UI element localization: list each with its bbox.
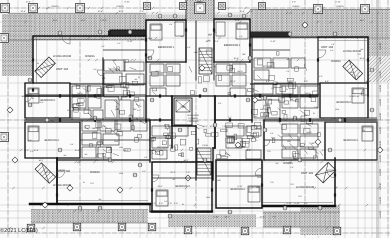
door jambs: [59, 94, 61, 97]
svg-text:O.CPPT: O.CPPT: [379, 140, 382, 148]
stipple texture right notch: [368, 38, 390, 62]
svg-text:LIVING ROOM: LIVING ROOM: [343, 50, 362, 53]
unit 102 outer walls (bottom-left): [56, 158, 58, 204]
svg-text:CL: CL: [138, 76, 140, 79]
grid tag squares bottom: [27, 224, 35, 232]
stipple texture left edge strip: [2, 14, 33, 76]
svg-text:3'-4": 3'-4": [142, 170, 146, 173]
diamond keynote markers: [302, 22, 308, 28]
svg-text:10'-6": 10'-6": [213, 40, 218, 43]
svg-text:9'-6": 9'-6": [325, 80, 329, 83]
svg-text:UNIT 101: UNIT 101: [301, 171, 314, 175]
svg-text:22'-8": 22'-8": [45, 171, 50, 174]
svg-text:PORCH: PORCH: [116, 5, 124, 8]
svg-text:DINING: DINING: [331, 60, 340, 63]
unit 101 bedroom bottom-right: [325, 122, 377, 160]
svg-text:3'-4": 3'-4": [144, 156, 148, 159]
svg-text:8'-1": 8'-1": [137, 109, 141, 112]
svg-text:7'-0": 7'-0": [168, 202, 172, 205]
svg-text:D1: D1: [313, 112, 315, 115]
central lobby walls: [171, 96, 173, 148]
svg-text:3'-4": 3'-4": [173, 136, 177, 139]
right mid bath cluster: [300, 86, 318, 95]
svg-text:2'-6": 2'-6": [331, 43, 335, 46]
svg-text:10'-6": 10'-6": [157, 185, 162, 188]
svg-text:2'-6": 2'-6": [101, 45, 105, 48]
circle window tags: [98, 30, 102, 34]
svg-text:BATH: BATH: [93, 127, 99, 130]
corridor double wall lines: [25, 94, 377, 121]
svg-text:TYP.: TYP.: [50, 120, 54, 123]
bedroom block bottom walls + walkway walls: [146, 61, 186, 63]
unit 102 stair: [35, 163, 56, 184]
svg-text:4'-0": 4'-0": [187, 46, 191, 49]
svg-text:3RD FLOOR: 3RD FLOOR: [187, 114, 199, 117]
center upper stair between bedrooms: [199, 48, 212, 74]
svg-text:O.CPPT: O.CPPT: [379, 168, 382, 176]
svg-text:5'-10": 5'-10": [270, 40, 275, 43]
center entries: [150, 88, 166, 96]
svg-text:22'-8": 22'-8": [230, 80, 235, 83]
svg-text:BEDROOM 1: BEDROOM 1: [44, 139, 60, 142]
svg-text:7'-0": 7'-0": [103, 19, 107, 22]
svg-text:10'-6": 10'-6": [52, 19, 57, 22]
svg-text:LIVING ROOM: LIVING ROOM: [53, 55, 72, 58]
svg-text:O.CPPT: O.CPPT: [379, 84, 382, 92]
svg-text:BEDROOM 1: BEDROOM 1: [224, 44, 241, 47]
right edge strong verticals: [376, 0, 378, 238]
svg-text:O.CPPT: O.CPPT: [379, 98, 382, 106]
svg-text:LIVING ROOM: LIVING ROOM: [296, 186, 315, 189]
svg-text:10'-6": 10'-6": [118, 10, 123, 13]
svg-text:5'-10": 5'-10": [340, 117, 345, 120]
svg-text:WALK: WALK: [197, 1, 203, 4]
svg-text:W2: W2: [64, 154, 67, 157]
svg-text:TYP.: TYP.: [290, 183, 294, 186]
svg-text:CL: CL: [83, 181, 85, 184]
svg-text:2'-6": 2'-6": [286, 70, 290, 73]
left mid bath cluster: [72, 86, 86, 95]
svg-text:3'-0": 3'-0": [25, 149, 29, 152]
svg-text:14'-2": 14'-2": [151, 149, 156, 152]
svg-text:BATH: BATH: [307, 131, 313, 134]
bottom-left bath cluster: [82, 120, 98, 131]
svg-text:CL: CL: [67, 109, 69, 112]
svg-text:O.CPPT: O.CPPT: [379, 70, 382, 78]
svg-text:PORCH: PORCH: [51, 5, 59, 8]
svg-text:O.CPPT: O.CPPT: [379, 154, 382, 162]
unit 102 kitchen cluster: [152, 126, 170, 136]
unit 101 outer walls (bottom-right): [263, 205, 335, 207]
svg-text:O.CPPT: O.CPPT: [379, 56, 382, 64]
right edge notes: [379, 42, 382, 218]
svg-text:3'-4": 3'-4": [134, 136, 138, 139]
unit 103 kitchen cluster: [254, 58, 271, 68]
svg-text:D1: D1: [182, 203, 184, 206]
left mid closets: [105, 100, 117, 118]
svg-text:12'-4": 12'-4": [259, 216, 264, 219]
svg-text:10'-6": 10'-6": [209, 125, 214, 128]
svg-text:5'-10": 5'-10": [127, 40, 132, 43]
svg-text:2'-6": 2'-6": [93, 68, 97, 71]
svg-text:12'-4": 12'-4": [234, 19, 239, 22]
svg-text:D1: D1: [37, 62, 39, 65]
svg-text:9'-6": 9'-6": [281, 159, 285, 162]
svg-text:W2: W2: [135, 78, 138, 81]
svg-text:TYP.: TYP.: [28, 139, 32, 142]
band mullion lines: [9, 14, 11, 40]
svg-text:W2: W2: [181, 35, 184, 38]
porch micro labels: [51, 1, 344, 9]
svg-text:3'-4": 3'-4": [330, 49, 334, 52]
party wall upper-right: [252, 95, 318, 97]
svg-text:5'-10": 5'-10": [213, 216, 218, 219]
stipple texture top-left band: [8, 14, 146, 40]
svg-text:W2: W2: [351, 71, 354, 74]
svg-text:W2: W2: [173, 178, 176, 181]
svg-text:14'-2": 14'-2": [38, 159, 43, 162]
svg-text:4'-0": 4'-0": [319, 75, 323, 78]
svg-text:3'-4": 3'-4": [362, 129, 366, 132]
svg-text:5'-10": 5'-10": [124, 1, 129, 4]
svg-text:3'-4": 3'-4": [169, 23, 173, 26]
svg-text:DINING: DINING: [283, 162, 292, 165]
svg-text:O.CPPT: O.CPPT: [379, 126, 382, 134]
unit 103 stair: [343, 60, 363, 80]
unit 104 outer walls (top-left): [33, 36, 146, 83]
svg-text:2'-6": 2'-6": [239, 35, 243, 38]
svg-text:BEDROOM 1: BEDROOM 1: [158, 46, 175, 49]
svg-text:CL: CL: [294, 157, 296, 160]
svg-text:DINING: DINING: [85, 55, 94, 58]
unit 104 bedroom 2: [25, 83, 70, 118]
svg-text:9'-6": 9'-6": [249, 10, 253, 13]
svg-text:TYP.: TYP.: [314, 106, 318, 109]
svg-text:D1: D1: [141, 38, 143, 41]
thin connecting strip across top: [146, 15, 250, 22]
svg-text:TYP.: TYP.: [298, 195, 302, 198]
svg-text:3'-0": 3'-0": [174, 202, 178, 205]
svg-text:7'-0": 7'-0": [152, 202, 156, 205]
svg-text:TYP.: TYP.: [90, 182, 94, 185]
dark porch wall bars: [108, 31, 146, 36]
svg-text:10'-6": 10'-6": [359, 57, 364, 60]
svg-text:5'-2": 5'-2": [117, 42, 121, 45]
svg-text:12'-4": 12'-4": [74, 149, 79, 152]
svg-text:7'-0": 7'-0": [146, 19, 150, 22]
party wall upper-left: [25, 95, 103, 97]
svg-text:3'-0": 3'-0": [159, 202, 163, 205]
svg-text:W2: W2: [266, 114, 269, 117]
svg-text:UNIT 104: UNIT 104: [56, 67, 69, 71]
svg-text:9'-6": 9'-6": [170, 95, 174, 98]
window mullion inner lines: [33, 36, 368, 203]
svg-text:14'-2": 14'-2": [224, 216, 229, 219]
svg-text:DINING: DINING: [90, 171, 99, 174]
svg-text:O.CPPT: O.CPPT: [379, 42, 382, 50]
svg-text:TYP.: TYP.: [357, 53, 361, 56]
svg-text:3'-4": 3'-4": [164, 200, 168, 203]
svg-text:5'-10": 5'-10": [354, 95, 359, 98]
svg-text:O.CPPT: O.CPPT: [379, 196, 382, 204]
svg-text:9'-6": 9'-6": [321, 117, 325, 120]
svg-text:3'-4": 3'-4": [70, 143, 74, 146]
svg-text:KITCHEN: KITCHEN: [157, 146, 167, 149]
svg-text:5'-10": 5'-10": [335, 1, 340, 4]
stipple texture top-center walkway: [186, 0, 214, 21]
grid tag squares top: [1, 4, 10, 13]
svg-text:3'-0": 3'-0": [304, 80, 308, 83]
svg-text:BATH: BATH: [238, 70, 244, 73]
bottom-right bath cluster: [300, 124, 318, 134]
stipple texture bottom mid patch: [168, 214, 256, 227]
svg-text:3'-4": 3'-4": [40, 101, 44, 104]
svg-text:12'-4": 12'-4": [239, 10, 244, 13]
svg-text:12'-4": 12'-4": [33, 149, 38, 152]
svg-text:STAIR: STAIR: [202, 144, 208, 147]
stipple texture bottom-left band: [31, 210, 148, 223]
svg-text:3'-0": 3'-0": [292, 1, 296, 4]
svg-text:D1: D1: [32, 97, 34, 100]
svg-text:5'-10": 5'-10": [349, 95, 354, 98]
svg-text:12'-4": 12'-4": [25, 1, 30, 4]
svg-text:CORRIDOR: CORRIDOR: [188, 120, 199, 123]
diagonal hatch right notch: [368, 56, 390, 82]
svg-text:BEDROOM 1: BEDROOM 1: [175, 185, 191, 188]
svg-text:2'-6": 2'-6": [290, 166, 294, 169]
svg-text:9'-6": 9'-6": [266, 80, 270, 83]
unit 102 bedroom bottom-left: [25, 122, 80, 158]
svg-text:12'-4": 12'-4": [20, 10, 25, 13]
svg-text:PORCH: PORCH: [292, 5, 300, 8]
unit 104 stair: [35, 57, 56, 78]
svg-text:14'-2": 14'-2": [21, 95, 26, 98]
misc interior partitions: [25, 50, 377, 178]
svg-text:5'-10": 5'-10": [237, 185, 242, 188]
unit 101 kitchen cluster: [226, 126, 244, 136]
svg-text:7'-0": 7'-0": [95, 159, 99, 162]
stipple texture bottom-right band: [263, 212, 340, 227]
svg-text:8'-1": 8'-1": [357, 75, 361, 78]
lower center bedroom block 2: [216, 160, 262, 208]
svg-text:14'-2": 14'-2": [123, 149, 128, 152]
svg-text:3'-4": 3'-4": [270, 132, 274, 135]
svg-text:3'-0": 3'-0": [322, 149, 326, 152]
svg-text:14'-2": 14'-2": [183, 159, 188, 162]
svg-text:7'-0": 7'-0": [222, 125, 226, 128]
center lower stair: [197, 148, 211, 175]
svg-text:4'-0": 4'-0": [30, 150, 34, 153]
svg-text:PORCH: PORCH: [336, 5, 344, 8]
svg-text:7'-0": 7'-0": [140, 10, 144, 13]
svg-text:W2: W2: [208, 39, 211, 42]
svg-text:5'-10": 5'-10": [331, 117, 336, 120]
svg-text:14'-2": 14'-2": [365, 80, 370, 83]
lower center bedroom block 1: [152, 162, 212, 212]
grid tag squares left: [0, 34, 9, 43]
top-middle-right bedroom block walls: [214, 19, 250, 62]
svg-text:5'-10": 5'-10": [167, 125, 172, 128]
unit 101 stair: [315, 162, 336, 183]
svg-text:W2: W2: [276, 162, 279, 165]
interior clutter detail: [218, 75, 221, 80]
svg-text:BEDROOM 1: BEDROOM 1: [230, 188, 246, 191]
svg-text:14'-2": 14'-2": [202, 125, 207, 128]
svg-text:TYP.: TYP.: [213, 31, 217, 34]
top-middle-left bedroom block walls: [146, 20, 186, 62]
svg-text:5'-2": 5'-2": [271, 87, 275, 90]
svg-text:O.CPPT: O.CPPT: [379, 210, 382, 218]
svg-text:4'-0": 4'-0": [104, 85, 108, 88]
svg-text:O.CPPT: O.CPPT: [379, 182, 382, 190]
svg-text:UNIT 102: UNIT 102: [58, 169, 71, 173]
svg-text:CL: CL: [286, 88, 288, 91]
svg-text:5'-2": 5'-2": [55, 116, 59, 119]
svg-text:W2: W2: [361, 48, 364, 51]
svg-text:8'-1": 8'-1": [247, 148, 251, 151]
center bath clusters: [150, 64, 164, 73]
stipple texture bottom-right corner: [300, 205, 340, 235]
svg-text:BEDROOM 1: BEDROOM 1: [336, 101, 352, 104]
svg-text:14'-2": 14'-2": [80, 19, 85, 22]
nested tag: [144, 3, 151, 10]
unit 103 bedroom 2: [320, 83, 368, 118]
svg-text:W2: W2: [114, 59, 117, 62]
lower corridor long walls: [25, 119, 150, 121]
svg-text:COMMON: COMMON: [188, 117, 198, 120]
svg-text:O.CPPT: O.CPPT: [379, 112, 382, 120]
svg-text:W2: W2: [85, 153, 88, 156]
party wall fill-ins: [70, 84, 320, 96]
svg-text:5'-2": 5'-2": [208, 34, 212, 37]
svg-text:7'-0": 7'-0": [272, 216, 276, 219]
svg-text:TYP.: TYP.: [270, 181, 274, 184]
svg-text:2'-6": 2'-6": [304, 114, 308, 117]
svg-text:W2: W2: [287, 58, 290, 61]
svg-text:©2021 LC(ITB): ©2021 LC(ITB): [0, 227, 38, 234]
svg-text:12'-4": 12'-4": [97, 10, 102, 13]
unit 103 outer walls (top-right): [250, 36, 318, 38]
stipple texture top-right band: [250, 9, 390, 38]
elevator shaft + lobby walls: [145, 96, 147, 122]
svg-text:14'-2": 14'-2": [359, 19, 364, 22]
svg-text:22'-8": 22'-8": [170, 171, 175, 174]
door swings: [62, 36, 70, 44]
svg-text:3'-4": 3'-4": [218, 102, 222, 105]
svg-text:5'-2": 5'-2": [228, 116, 232, 119]
svg-text:3'-0": 3'-0": [102, 125, 106, 128]
svg-text:CL: CL: [69, 184, 71, 187]
lobby clutter: [156, 151, 160, 154]
svg-text:TYP.: TYP.: [267, 150, 271, 153]
svg-text:7'-0": 7'-0": [186, 171, 190, 174]
svg-text:W2: W2: [255, 115, 258, 118]
right mid closets: [254, 100, 266, 118]
svg-text:BEDROOM 1: BEDROOM 1: [343, 139, 359, 142]
unit 104 kitchen cluster: [104, 60, 125, 71]
